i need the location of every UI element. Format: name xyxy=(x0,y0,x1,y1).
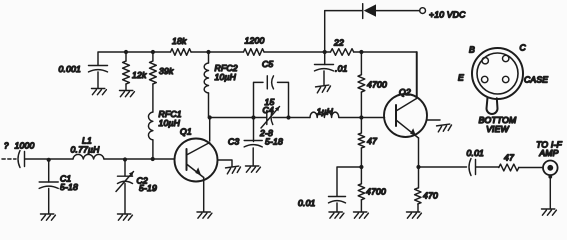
wire Q1 case xyxy=(218,160,233,167)
value label .01 xyxy=(335,64,348,74)
svg-text:C4: C4 xyxy=(263,105,274,115)
diode D1 xyxy=(363,4,376,19)
ground xyxy=(41,214,56,220)
ground xyxy=(92,89,107,95)
svg-text:4700: 4700 xyxy=(366,187,386,197)
node C2 xyxy=(123,157,127,161)
value label 1uH xyxy=(317,107,334,117)
wire xyxy=(49,158,73,160)
pin CASE xyxy=(503,76,509,82)
resistor 22 xyxy=(331,49,354,56)
ground xyxy=(118,214,133,220)
svg-text:10µH: 10µH xyxy=(215,72,237,82)
svg-text:C3: C3 xyxy=(228,137,239,147)
svg-text:Q2: Q2 xyxy=(399,87,411,97)
ground xyxy=(197,212,212,218)
resistor 47 output xyxy=(499,164,519,171)
value label 4700 xyxy=(366,187,386,197)
capacitor C1 xyxy=(39,159,58,214)
label C4 xyxy=(263,105,274,115)
value label 22 xyxy=(333,38,344,48)
wire xyxy=(125,158,153,160)
node Q2-base xyxy=(359,115,363,119)
svg-text:0.01: 0.01 xyxy=(298,198,316,208)
wire Q2 emitter xyxy=(418,138,420,167)
wire xyxy=(354,52,417,97)
wire xyxy=(209,51,244,53)
ground xyxy=(407,212,422,218)
wire xyxy=(519,167,543,169)
node RFC2-top xyxy=(206,50,210,54)
value label 1200 xyxy=(245,36,265,46)
value label 5-18 xyxy=(60,182,78,192)
ground xyxy=(226,166,242,174)
wire input xyxy=(2,158,16,160)
wire xyxy=(104,158,125,160)
wire xyxy=(361,117,384,119)
wire xyxy=(325,11,362,52)
svg-text:B: B xyxy=(469,45,475,55)
capacitor C2 trimmer xyxy=(116,159,134,214)
wire xyxy=(289,117,311,119)
label CASE xyxy=(524,75,548,85)
label C1 xyxy=(60,174,71,184)
label BOTTOM VIEW xyxy=(479,115,517,134)
svg-text:0.77µH: 0.77µH xyxy=(71,145,101,155)
wire xyxy=(191,51,209,53)
label Q2 xyxy=(399,87,411,97)
ground xyxy=(354,212,369,218)
node Q1-collector xyxy=(208,115,212,119)
ground xyxy=(329,212,344,218)
capacitor .01 xyxy=(315,52,334,86)
svg-text:+10 VDC: +10 VDC xyxy=(429,9,466,19)
value label 12k xyxy=(132,70,147,80)
value label 15 xyxy=(265,97,275,107)
svg-text:18k: 18k xyxy=(172,36,187,46)
svg-text:0.01: 0.01 xyxy=(467,148,485,158)
wire xyxy=(153,158,175,160)
capacitor 1000 xyxy=(18,151,25,168)
svg-text:C5: C5 xyxy=(262,59,273,69)
ground xyxy=(246,166,261,172)
resistor 47 base xyxy=(358,118,364,168)
value label 5-19 xyxy=(139,183,157,193)
label C3 xyxy=(228,137,239,147)
svg-text:AMP: AMP xyxy=(538,148,558,158)
svg-text:1µH: 1µH xyxy=(317,107,334,117)
svg-text:5-18: 5-18 xyxy=(265,137,283,147)
wire xyxy=(376,10,420,12)
wire Q1 emitter xyxy=(203,178,205,212)
resistor 4700 lower xyxy=(358,167,364,212)
capacitor C5 xyxy=(267,76,273,89)
value label 0.01 xyxy=(298,198,316,208)
svg-text:4700: 4700 xyxy=(367,80,387,90)
value label RFC1 10uH xyxy=(159,109,182,128)
value label RFC2 10uH xyxy=(215,63,238,82)
capacitor 0.001 xyxy=(89,66,108,89)
svg-text:10µH: 10µH xyxy=(159,118,181,128)
svg-text:5-19: 5-19 xyxy=(139,183,157,193)
label Q1 xyxy=(180,127,192,137)
inductor RFC2 xyxy=(204,52,208,118)
node 4700-top xyxy=(359,50,363,54)
node emitter-out xyxy=(416,165,420,169)
label C xyxy=(520,43,527,53)
transistor Q1 xyxy=(175,139,218,182)
wire xyxy=(476,166,499,168)
value label 5-18 xyxy=(265,137,283,147)
pin C xyxy=(503,55,509,61)
node RFC1 xyxy=(151,157,155,161)
wire Q2 collector xyxy=(416,52,418,99)
wire xyxy=(325,51,331,53)
node C4-right xyxy=(286,115,290,119)
value label 0.01 xyxy=(467,148,485,158)
inductor RFC1 xyxy=(148,84,152,159)
wire xyxy=(264,51,325,53)
wire xyxy=(25,158,49,160)
terminal TO I-F AMP xyxy=(543,161,558,176)
svg-text:.01: .01 xyxy=(335,64,348,74)
label C2 xyxy=(137,176,148,186)
node C1 xyxy=(47,158,51,162)
node 12k-top xyxy=(124,50,128,54)
wire xyxy=(419,166,467,168)
node diode-branch xyxy=(323,50,327,54)
label ? 1000 xyxy=(4,141,34,151)
wire xyxy=(209,118,211,142)
capacitor 0.01 bypass xyxy=(329,197,346,203)
value label 47 xyxy=(367,136,378,146)
ground xyxy=(437,124,453,132)
wire xyxy=(548,175,552,209)
svg-text:1200: 1200 xyxy=(245,36,265,46)
wire C5 loop xyxy=(254,82,289,117)
svg-text:470: 470 xyxy=(423,191,438,201)
inductor L1 xyxy=(73,154,104,159)
value label 39k xyxy=(159,66,174,76)
capacitor 0.01 output xyxy=(469,159,476,176)
label +10 VDC xyxy=(429,9,466,19)
svg-text:47: 47 xyxy=(367,136,378,146)
wire xyxy=(337,167,361,196)
svg-text:5-18: 5-18 xyxy=(60,182,78,192)
value label 0.77uH xyxy=(71,145,101,155)
wire xyxy=(336,203,338,212)
resistor 4700 upper xyxy=(358,52,365,118)
svg-text:22: 22 xyxy=(333,38,344,48)
svg-text:Q1: Q1 xyxy=(180,127,192,137)
value label 18k xyxy=(172,36,187,46)
label C5 xyxy=(262,59,273,69)
ground xyxy=(120,91,135,97)
inductor L2 1uH xyxy=(310,112,339,117)
value label 0.001 xyxy=(59,64,82,74)
value label 470 xyxy=(423,191,438,201)
svg-text:1000: 1000 xyxy=(15,141,35,151)
ground xyxy=(542,209,557,215)
svg-text:39k: 39k xyxy=(159,66,174,76)
node C4-left xyxy=(251,115,255,119)
capacitor C3 xyxy=(244,118,262,166)
resistor 470 xyxy=(415,167,421,212)
wire xyxy=(210,117,254,119)
resistor 12k xyxy=(123,52,130,90)
resistor 39k xyxy=(150,52,157,84)
svg-text:0.001: 0.001 xyxy=(59,64,82,74)
label B xyxy=(469,45,475,55)
pin B xyxy=(482,58,488,64)
svg-text:VIEW: VIEW xyxy=(486,124,509,134)
svg-text:CASE: CASE xyxy=(524,75,548,85)
wire Q2 case xyxy=(427,119,441,121)
label TO I-F AMP xyxy=(536,140,562,159)
resistor 1200 xyxy=(244,49,265,56)
value label 2-8 xyxy=(259,128,273,138)
wire xyxy=(98,52,171,65)
svg-text:47: 47 xyxy=(504,153,515,163)
resistor 18k xyxy=(171,49,192,56)
svg-text:E: E xyxy=(458,73,464,83)
node 39k-top xyxy=(151,50,155,54)
wire xyxy=(339,117,361,119)
svg-text:12k: 12k xyxy=(132,70,147,80)
pin E xyxy=(482,76,488,82)
capacitor C4 trimmer xyxy=(254,107,289,129)
label E xyxy=(458,73,464,83)
terminal +10VDC xyxy=(420,8,426,14)
transistor Q2 xyxy=(384,94,427,138)
svg-text:C: C xyxy=(520,43,527,53)
transistor outline case xyxy=(472,48,523,114)
value label 4700 xyxy=(367,80,387,90)
ground xyxy=(316,85,332,93)
value label 47 xyxy=(504,153,515,163)
node 47-4700 xyxy=(359,165,363,169)
svg-text:?: ? xyxy=(4,142,9,151)
label L1 xyxy=(82,136,92,146)
